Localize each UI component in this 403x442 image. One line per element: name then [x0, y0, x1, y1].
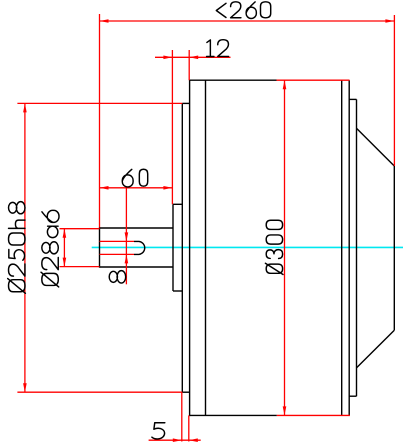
dimension 60	[100, 186, 173, 190]
flange plate	[173, 204, 182, 291]
dimension diameter 300	[283, 80, 287, 415]
centerline axis	[92, 246, 403, 248]
dimension 8 keyway	[100, 188, 135, 284]
front ring	[182, 103, 189, 392]
label diameter 300 (rotated)	[265, 220, 283, 274]
dimension diameter 28g6	[60, 229, 100, 267]
label 8 (rotated)	[109, 271, 125, 283]
label diameter 250h8 (rotated)	[8, 202, 26, 294]
red overlay on body bottom edge	[277, 414, 350, 416]
shaft outline	[100, 227, 174, 267]
dimension 260	[100, 14, 395, 228]
dimension diameter 250h8	[17, 103, 182, 392]
label 60	[122, 169, 147, 187]
keyway slot	[134, 241, 145, 254]
rear cone	[357, 128, 395, 367]
red overlay on body top edge	[277, 79, 350, 81]
label <260	[216, 2, 270, 19]
rear step ring	[349, 99, 356, 396]
motor body	[190, 80, 350, 417]
label 5	[152, 423, 165, 439]
dimension 5	[149, 393, 201, 442]
dimension 12	[155, 50, 231, 204]
label 12	[207, 40, 229, 57]
label diameter 28g6 (rotated)	[41, 210, 59, 287]
